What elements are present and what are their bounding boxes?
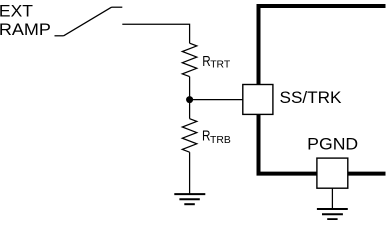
- svg-text:RAMP: RAMP: [0, 21, 51, 39]
- switch SW1 blade: [64, 7, 112, 36]
- svg-text:EXT: EXT: [0, 3, 33, 21]
- wire PGND to ground: [331, 188, 333, 209]
- resistor R_TRT: [182, 43, 197, 76]
- svg-text:SS/TRK: SS/TRK: [280, 89, 342, 107]
- wire R_TRT to node: [189, 77, 191, 100]
- switch SW1 stub: [55, 35, 64, 37]
- wire node to R_TRB: [189, 100, 191, 119]
- pin PGND box: [317, 158, 348, 188]
- resistor R_TRB: [182, 119, 197, 153]
- wire from switch to R_TRT: [122, 24, 189, 43]
- svg-text:PGND: PGND: [307, 136, 358, 154]
- label R_TRT: [202, 53, 231, 71]
- IC U1 outline: [259, 6, 386, 174]
- wire node to SS/TRK pin: [190, 99, 243, 101]
- switch SW1 blade tip: [112, 6, 123, 8]
- wire R_TRB to ground: [189, 152, 191, 194]
- ground (below PGND): [317, 209, 348, 219]
- svg-text:TRT: TRT: [210, 60, 231, 71]
- ground (below R_TRB): [174, 194, 205, 204]
- label R_TRB: [202, 127, 231, 145]
- svg-text:TRB: TRB: [210, 135, 231, 146]
- pin SS/TRK box: [243, 85, 273, 115]
- node A junction dot: [186, 96, 193, 103]
